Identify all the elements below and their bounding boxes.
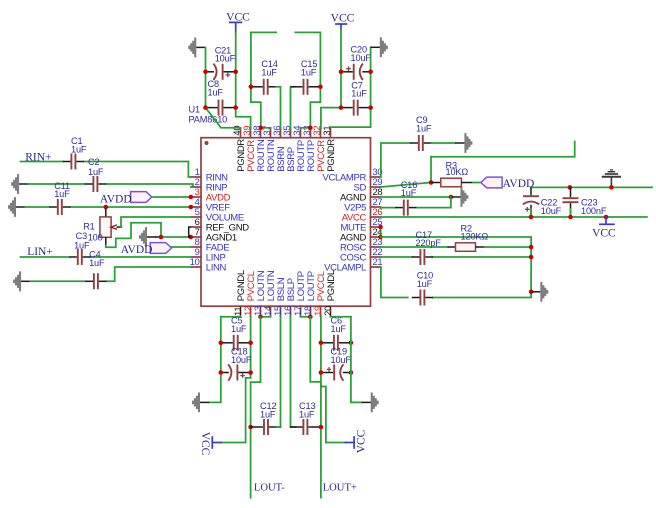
svg-text:LOUT+: LOUT+ <box>323 483 357 494</box>
junction pin 24 <box>378 235 383 240</box>
power symbol VCC (bottom-right, rotated) <box>345 429 367 453</box>
pin 35 BSRP (top side) <box>281 126 297 172</box>
junction C8 left <box>203 105 208 110</box>
junction pin 7 <box>189 235 194 240</box>
svg-text:100nF: 100nF <box>581 206 607 216</box>
wire C8-left diagonal to pin 40 <box>206 108 241 128</box>
wire pin 34 to pin 33 <box>301 127 311 129</box>
power symbol VCC (bottom-left, rotated) <box>199 432 221 456</box>
wire C10 right to ground rail <box>433 292 531 298</box>
wire C7 left to pin 32 PVCCR <box>321 108 341 129</box>
wire SD node stub upward <box>431 142 575 157</box>
capacitor C12 1uF <box>251 419 282 435</box>
junction pin 13 bottom <box>258 315 263 320</box>
svg-text:1uF: 1uF <box>260 409 276 419</box>
capacitor C7 1uF <box>341 100 371 116</box>
capacitor C9 1uF <box>410 135 431 151</box>
svg-text:AVDD: AVDD <box>100 193 132 205</box>
resistor R2 120KOhm <box>448 243 485 252</box>
capacitor C2 1uF <box>85 176 106 192</box>
wire pin 19 PVCCL rail to VCC <box>321 316 346 442</box>
power symbol VCC (top-right) <box>331 12 355 29</box>
capacitor C13 1uF <box>290 419 321 435</box>
wire pin 16 BSLP to C13 <box>291 316 296 427</box>
pin 24 AGND (right side) <box>340 226 382 243</box>
junction ground rail / R2 <box>529 245 534 250</box>
wire C12 right to pin 15 BSLN <box>277 316 281 427</box>
wire C11 to pin 4 VREF <box>70 206 190 208</box>
svg-text:1uF: 1uF <box>231 324 247 334</box>
wire pin 20 PGNDL to right rail <box>331 316 351 318</box>
junction earth stem <box>609 185 614 190</box>
ground (AGND1 row) <box>139 227 156 247</box>
wire pin 26 AVCC bus <box>381 216 647 218</box>
ground (bottom-left) <box>192 393 209 413</box>
wire net ROUTP bracket to pin 33 <box>295 32 320 127</box>
capacitor C1 1uF <box>63 154 84 170</box>
junction C5 right <box>248 341 253 346</box>
pin 40 PGNDR (top side) <box>231 126 247 172</box>
pin 1 RINN (left side) <box>191 166 228 183</box>
svg-text:220pF: 220pF <box>416 238 442 248</box>
junction AGND/C16 node <box>449 195 454 200</box>
svg-text:U1: U1 <box>189 105 200 115</box>
wire VCC rail through C20/C7 left <box>340 29 342 107</box>
wire VCC rail to pin 39 PVCCR <box>236 33 251 129</box>
wire right ground rail <box>351 317 362 403</box>
wire AGND bus to right ground rail <box>381 237 532 292</box>
pin 17 LOUTP (bottom side) <box>292 271 307 316</box>
junction C23/AVCC <box>568 215 573 220</box>
wire AGND far-right bus <box>531 186 652 188</box>
svg-text:1uF: 1uF <box>401 188 417 198</box>
wire C14 right to pin 36 BSRN <box>276 87 280 129</box>
svg-text:PAM8610: PAM8610 <box>189 115 228 125</box>
svg-text:1uF: 1uF <box>261 67 277 77</box>
pin 27 V2P5 (right side) <box>344 196 382 213</box>
wire pin 23 ROSC to R2 <box>381 246 448 248</box>
ground (row C2) <box>11 174 28 194</box>
junction C20 left <box>339 70 344 75</box>
junction C7 left <box>339 105 344 110</box>
svg-text:VCC: VCC <box>199 432 211 456</box>
junction pin 3 <box>189 195 194 200</box>
svg-text:1uF: 1uF <box>331 324 347 334</box>
wire C1 to pin 1 RINN <box>84 162 191 178</box>
pin 31 PGNDR (top side) <box>321 126 337 172</box>
capacitor C4 1uF <box>85 273 106 289</box>
wire C4 to pin 10 LINN <box>107 267 192 281</box>
wire R3 to AVDD flag <box>473 182 481 184</box>
junction C19 right <box>349 370 354 375</box>
pin 16 BSLP (bottom side) <box>282 278 297 316</box>
wire net LOUT+ trunk <box>310 317 321 498</box>
svg-text:AVDD: AVDD <box>503 178 535 190</box>
capacitor C17 220pF <box>412 249 433 265</box>
wire AGND1 ground tail <box>155 236 161 238</box>
wire net LOUT- trunk <box>251 317 261 498</box>
power symbol VCC (AVCC bus, inverted) <box>592 217 616 239</box>
wire net ROUTN bracket to pin 38 <box>251 32 276 127</box>
wire pin 17 to pin 18 <box>301 316 311 318</box>
ground (row C11) <box>8 197 25 217</box>
junction C11 row to R1 <box>104 205 109 210</box>
capacitor C19 10uF polarized <box>321 364 351 380</box>
wire pin 22 COSC to C17 <box>381 256 412 258</box>
power flag AVDD (pin 3) <box>131 192 152 203</box>
svg-text:AVDD: AVDD <box>121 244 153 256</box>
junction C13 right <box>319 425 324 430</box>
junction C21 left <box>203 70 208 75</box>
wire pin 29 SD diagonal to R3 node <box>381 183 432 188</box>
wire pin 28 AGND to ground <box>381 196 451 198</box>
wire pin 35 BSRP to C15 left <box>291 87 295 129</box>
svg-text:1uF: 1uF <box>301 67 317 77</box>
wire AVDD flag to pin 3 <box>152 196 191 198</box>
capacitor C21 10uF polarized <box>205 64 235 80</box>
ground (right rail) <box>531 282 548 302</box>
pin 18 LOUTP (bottom side) <box>302 271 317 316</box>
pin 12 PVCCL (bottom side) <box>242 271 257 316</box>
pin 37 ROUTN (top side) <box>261 126 277 172</box>
wire left ground rail <box>209 317 221 403</box>
svg-text:20: 20 <box>322 306 333 316</box>
ground (row C4) <box>13 271 30 291</box>
junction C20 right <box>368 70 373 75</box>
capacitor C22 10uF polarized <box>523 187 539 217</box>
pin 8 FADE (left side) <box>191 236 229 253</box>
junction pin 38 top <box>259 126 264 131</box>
junction C22/AVCC <box>529 215 534 220</box>
svg-text:1uF: 1uF <box>71 144 87 154</box>
pin 15 BSLN (bottom side) <box>272 277 287 316</box>
wire C7 right down to pin 31 PGNDR <box>331 72 371 127</box>
pin 29 SD (right side) <box>354 176 383 193</box>
svg-text:10uF: 10uF <box>231 355 252 365</box>
pin 19 PVCCL (bottom side) <box>312 271 327 316</box>
junction C5 left <box>219 341 224 346</box>
junction C8 right <box>233 105 238 110</box>
wire C20 right up to ground <box>370 47 372 72</box>
svg-text:10KΩ: 10KΩ <box>446 167 469 177</box>
wire RIN+ to C1 <box>21 161 63 163</box>
wire pin 13 to pin 14 <box>261 316 271 318</box>
capacitor C11 1uF <box>49 199 70 215</box>
pin 23 ROSC (right side) <box>340 236 382 253</box>
ground (C9 row) <box>455 133 472 153</box>
capacitor C20 10uF polarized <box>341 64 371 80</box>
svg-text:C2: C2 <box>88 157 99 167</box>
junction C12 left <box>248 425 253 430</box>
wire pin 6 REF_GND jumper to pin 7 <box>189 227 191 237</box>
wire C9 right to ground <box>431 142 455 144</box>
pin 4 VREF (left side) <box>191 196 230 213</box>
junction right ground rail <box>529 290 534 295</box>
resistor R1 100 (volume trimmer) <box>100 209 122 246</box>
pin 30 VCLAMPR (right side) <box>323 166 383 183</box>
capacitor C3 1uF <box>69 249 90 265</box>
wire AVDD flag to pin 8 FADE <box>172 246 192 248</box>
capacitor C18 10uF polarized <box>220 364 250 380</box>
wire pin 30 VCLAMPR to C9 <box>381 143 410 177</box>
junction pin 18 bottom <box>308 315 313 320</box>
junction C18 right <box>248 370 253 375</box>
pin 36 BSRN (top side) <box>271 126 287 172</box>
junction VCC tap on AVCC <box>604 215 609 220</box>
svg-text:1uF: 1uF <box>417 279 433 289</box>
svg-text:PGNDL: PGNDL <box>326 270 337 301</box>
capacitor C8 1uF <box>205 100 235 116</box>
pin 2 RINP (left side) <box>191 176 227 193</box>
svg-text:LOUT-: LOUT- <box>254 483 285 494</box>
pin 6 REF_GND (left side) <box>191 216 249 233</box>
wire LIN+ to C3 <box>21 256 70 258</box>
svg-text:10uF: 10uF <box>215 54 236 64</box>
pin 13 LOUTN (bottom side) <box>252 270 267 316</box>
svg-text:LINN: LINN <box>206 263 227 274</box>
pin 10 LINN (left side) <box>190 256 227 273</box>
pin 3 AVDD (left side) <box>191 186 231 203</box>
ground (top-left PGNDR) <box>188 38 205 58</box>
svg-text:1uF: 1uF <box>89 258 105 268</box>
pin 26 AVCC (right side) <box>342 206 383 223</box>
junction C6 right <box>349 341 354 346</box>
power symbol VCC (top-left) <box>226 12 250 33</box>
pin 38 ROUTN (top side) <box>251 126 267 172</box>
wire C16 right up to AGND node <box>416 197 451 208</box>
wire C2 to pin 2 RINP <box>106 184 193 187</box>
svg-text:100: 100 <box>88 233 103 243</box>
svg-text:1uF: 1uF <box>88 167 104 177</box>
svg-text:VCC: VCC <box>356 429 368 453</box>
wire R1 bottom to AGND1 net <box>106 223 161 248</box>
svg-text:R1: R1 <box>83 221 94 231</box>
svg-text:10uF: 10uF <box>351 53 372 63</box>
svg-text:10uF: 10uF <box>541 206 562 216</box>
wire pin 11 PGNDL to left rail <box>221 316 241 318</box>
svg-text:1uF: 1uF <box>208 87 224 97</box>
capacitor C6 1uF <box>321 335 351 351</box>
wire SD node vertical <box>430 157 432 183</box>
wire C3 to pin 9 LINP <box>90 256 191 258</box>
svg-text:1uF: 1uF <box>299 409 315 419</box>
junction C7 right <box>368 105 373 110</box>
wire R2 right to ground rail <box>485 246 532 248</box>
pin 5 VOLUME (left side) <box>191 206 244 223</box>
junction C18 left <box>219 370 224 375</box>
pin 21 VCLAMPL (right side) <box>324 256 382 273</box>
junction C6 left <box>319 341 324 346</box>
junction C21 right <box>233 70 238 75</box>
pin 34 ROUTP (top side) <box>291 126 307 172</box>
ground (top-right near C20) <box>371 37 388 57</box>
svg-text:120KΩ: 120KΩ <box>461 232 489 242</box>
wire ground to C2 <box>28 183 85 185</box>
svg-text:10uF: 10uF <box>331 355 352 365</box>
svg-text:1uF: 1uF <box>351 89 367 99</box>
pin 28 AGND (right side) <box>340 186 382 203</box>
junction AGND1 ground tap <box>159 235 164 240</box>
pin 39 PVCCR (top side) <box>241 126 257 172</box>
pin 33 ROUTP (top side) <box>301 126 317 172</box>
wire pin 25 MUTE to pin 24 AGND <box>380 227 382 237</box>
svg-text:VCC: VCC <box>331 12 355 24</box>
junction C15 right <box>318 85 323 90</box>
wire C17 right to ground rail <box>433 256 531 258</box>
earth ground symbol (top far-right) <box>602 170 621 188</box>
op-amp U1 PAM8610 class-D audio amplifier IC <box>201 138 371 307</box>
wire ground to C11 <box>25 206 49 208</box>
junction R3 left node <box>429 180 434 185</box>
wire C23 bottom to AVCC bus <box>570 209 572 217</box>
wire pin 12 PVCCL rail to VCC <box>221 316 251 442</box>
svg-text:1uF: 1uF <box>416 124 432 134</box>
junction ground rail / C17 <box>529 255 534 260</box>
wire pin 21 VCLAMPL to C10 <box>381 267 408 298</box>
resistor R3 10KOhm <box>431 178 473 187</box>
power flag AVDD (R3) <box>481 177 502 188</box>
power flag AVDD (pin 8) <box>150 243 171 254</box>
wire AGND1 ground to pin 7 <box>161 236 191 238</box>
junction pin 4 <box>189 205 194 210</box>
wire pin 27 V2P5 to C16 <box>381 207 396 209</box>
wire pin 38 to pin 37 <box>261 127 271 129</box>
wire ground rail to C21/C8 left <box>205 47 207 107</box>
capacitor C15 1uF <box>291 79 321 95</box>
junction C19 left <box>319 370 324 375</box>
wire C22 bottom to AVCC bus <box>530 209 532 217</box>
pin 11 PGNDL (bottom side) <box>232 270 247 316</box>
capacitor C16 1uF <box>395 200 416 216</box>
capacitor C5 1uF <box>221 335 251 351</box>
capacitor C10 1uF <box>412 290 433 306</box>
svg-text:C3: C3 <box>76 231 87 241</box>
svg-text:PGNDR: PGNDR <box>326 139 337 172</box>
wire R1 wiper to pin 5 VOLUME <box>121 217 191 227</box>
pin 32 PVCCR (top side) <box>311 126 327 172</box>
ground (pin 28 row) <box>451 187 468 207</box>
pin 9 LINP (left side) <box>191 246 226 263</box>
pin 7 AGND1 (left side) <box>191 226 237 243</box>
capacitor C23 100nF <box>563 187 579 217</box>
pin 20 PGNDL (bottom side) <box>322 270 337 316</box>
pin 14 LOUTN (bottom side) <box>262 270 277 316</box>
wire ground to C4 <box>30 280 85 282</box>
ground (bottom-right) <box>362 393 379 413</box>
junction pin 33 top <box>308 126 313 131</box>
svg-text:1uF: 1uF <box>54 189 70 199</box>
svg-text:VCC: VCC <box>592 227 616 239</box>
junction C14 left <box>249 85 254 90</box>
capacitor C14 1uF <box>251 79 281 95</box>
junction C23 top <box>568 185 573 190</box>
pin 22 COSC (right side) <box>340 246 382 263</box>
pin 25 MUTE (right side) <box>340 216 382 233</box>
junction pin 25 <box>378 225 383 230</box>
